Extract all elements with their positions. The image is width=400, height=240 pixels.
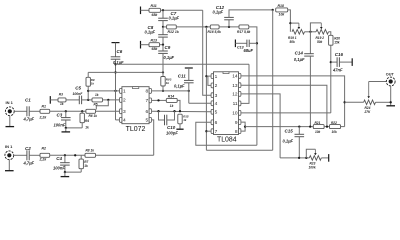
svg-text:R4: R4 bbox=[85, 119, 89, 123]
svg-text:C4: C4 bbox=[56, 156, 62, 161]
svg-text:R21: R21 bbox=[315, 121, 321, 125]
wire top rail down to TL084 pin3 bbox=[203, 10, 212, 95]
resistor R5 1k bbox=[92, 98, 103, 102]
terminal left of R13 bbox=[140, 41, 142, 49]
wiper of R24 up to OUT bbox=[368, 82, 370, 98]
potentiometer R19 2 50k bbox=[316, 30, 329, 35]
potentiometer R19 1 50k bbox=[292, 30, 305, 35]
TL072 pin 3 bbox=[120, 109, 122, 114]
svg-text:TL084: TL084 bbox=[217, 137, 237, 144]
TL084 pin 9 bbox=[239, 120, 241, 125]
wire R9 top to negative run bbox=[87, 72, 89, 77]
wire C9 down the bus to R13b bbox=[162, 53, 164, 76]
svg-text:3: 3 bbox=[123, 109, 126, 115]
ground under IN 2 jack bbox=[8, 160, 10, 171]
wire C6 down to TL072 pin4 bbox=[115, 59, 117, 120]
node R7 junction bbox=[74, 154, 76, 156]
svg-text:C1: C1 bbox=[25, 97, 31, 102]
svg-text:R3: R3 bbox=[59, 92, 63, 96]
wire R20 down to C16 node and pin10 bbox=[330, 45, 332, 113]
TL084 pin 1 bbox=[211, 74, 213, 79]
svg-text:R17 5,6k: R17 5,6k bbox=[237, 30, 251, 34]
svg-text:15k: 15k bbox=[334, 41, 340, 45]
svg-text:10k: 10k bbox=[332, 130, 338, 134]
svg-text:50k: 50k bbox=[290, 40, 296, 44]
svg-text:C3: C3 bbox=[57, 113, 63, 118]
wire terminal to R13 bbox=[141, 44, 150, 46]
wire OUT jack to wiper riser bbox=[369, 81, 387, 83]
svg-text:IN 1: IN 1 bbox=[5, 144, 13, 149]
terminal above C11 bbox=[185, 67, 193, 69]
wire R24 right to ground bbox=[376, 101, 391, 103]
svg-text:11: 11 bbox=[233, 101, 238, 107]
wire TL084 pin7 to V2 bbox=[206, 130, 211, 132]
svg-text:R18: R18 bbox=[278, 4, 284, 8]
svg-text:1k: 1k bbox=[183, 118, 187, 122]
capacitor C12 0,1uF bbox=[228, 20, 230, 27]
node V2 top junction bbox=[205, 26, 207, 28]
resistor R12 1k bbox=[167, 25, 177, 29]
wire R22 to R24 riser bbox=[341, 126, 345, 128]
wire R3 to C5 bbox=[66, 99, 79, 101]
svg-text:R11: R11 bbox=[151, 4, 157, 8]
wire TL084 pin12 down to R23 line bbox=[241, 94, 280, 158]
wire R1 to R6 (ch1 input line) bbox=[50, 110, 86, 112]
node R9 bottom junction bbox=[87, 99, 89, 101]
connector OUT (RCA jack) bbox=[386, 77, 395, 86]
resistor R4 1k to ground bbox=[81, 111, 83, 113]
potentiometer R24 27K bbox=[345, 101, 364, 103]
wire C12 top to R18 bbox=[229, 10, 273, 18]
svg-text:2: 2 bbox=[123, 98, 126, 104]
wire R8 to TL072 pin5 riser bbox=[96, 154, 154, 156]
TL084 pin 12 bbox=[239, 92, 241, 97]
TL084 pin 13 bbox=[239, 83, 241, 88]
TL084 pin 6 bbox=[211, 120, 213, 125]
capacitor C11 0,1uF bbox=[184, 79, 194, 81]
svg-text:100nF: 100nF bbox=[54, 122, 66, 127]
svg-text:2,2k: 2,2k bbox=[39, 158, 48, 162]
svg-text:5: 5 bbox=[215, 110, 218, 116]
capacitor C1 4,7uF bbox=[26, 106, 28, 116]
svg-text:C14: C14 bbox=[295, 50, 304, 55]
wire R16 to R17 bbox=[219, 26, 239, 28]
TL084 pin 8 bbox=[239, 129, 241, 134]
op-amp U2 TL084 body bbox=[214, 72, 239, 135]
node C3 junction bbox=[65, 110, 67, 112]
potentiometer R23 100k bbox=[309, 156, 321, 161]
svg-text:0,1µF: 0,1µF bbox=[174, 84, 185, 89]
resistor RV3 1k (vertical on bus) bbox=[161, 77, 165, 87]
resistor R16 5,6k bbox=[210, 25, 219, 29]
wire R17 right down (to C13/loop) bbox=[249, 27, 257, 145]
svg-text:12: 12 bbox=[232, 92, 238, 98]
svg-text:0,1µF: 0,1µF bbox=[145, 30, 156, 35]
svg-text:4: 4 bbox=[215, 101, 218, 107]
svg-text:100nF: 100nF bbox=[53, 166, 65, 171]
wire R21 to R22 bbox=[324, 126, 329, 128]
ground ch2 filter bbox=[64, 172, 66, 176]
svg-text:C9: C9 bbox=[165, 45, 171, 50]
terminal right of R23 bbox=[328, 154, 330, 162]
svg-text:C5: C5 bbox=[75, 85, 81, 90]
svg-text:14: 14 bbox=[232, 74, 238, 80]
wire IN2 to C2 bbox=[14, 154, 27, 156]
wire C1 to R1 bbox=[29, 110, 40, 112]
svg-text:TL072: TL072 bbox=[126, 126, 146, 133]
wire R2 to R8 (ch2 input line) bbox=[50, 154, 85, 156]
wire R6 to TL072 pin3 bbox=[96, 110, 120, 112]
wire R9/R13 negative run bbox=[88, 71, 163, 73]
svg-text:1k: 1k bbox=[85, 126, 89, 130]
wire R23 to terminal bbox=[321, 157, 328, 159]
svg-text:10k: 10k bbox=[315, 130, 321, 134]
resistor R11 68k bbox=[149, 8, 161, 12]
wire terminal to C6 bbox=[115, 43, 117, 57]
node pin2 branch bbox=[107, 99, 109, 101]
capacitor C15 0,1uF bbox=[298, 127, 300, 135]
TL072 pin 4 bbox=[120, 118, 122, 123]
wire down to TL084 pin10 bbox=[241, 112, 331, 114]
wire TL072 pin7 to R14 bbox=[152, 99, 167, 101]
svg-text:5: 5 bbox=[146, 118, 149, 124]
wire riser up to TL072 pin5 bbox=[152, 120, 154, 155]
svg-text:68uF: 68uF bbox=[244, 48, 254, 53]
wire TL084 pin13 down to R21/R22 node bbox=[241, 85, 327, 126]
resistor R1 2,2k bbox=[40, 109, 50, 113]
TL072 pin 1 bbox=[120, 89, 122, 94]
wire R18 down to loop-b and pots bbox=[272, 10, 274, 150]
wire R4/C3 to ground bbox=[81, 123, 83, 128]
wire OUT jack down to ground bbox=[390, 86, 392, 106]
svg-text:27K: 27K bbox=[364, 110, 372, 114]
TL084 pin 11 bbox=[239, 101, 241, 106]
node C4 junction bbox=[64, 154, 66, 156]
TL072 pin 5 bbox=[149, 118, 151, 123]
capacitor C13 68uF bbox=[235, 42, 247, 44]
wire TL084 pin9-pin8 bracket bbox=[241, 122, 245, 131]
TL072 pin 2 bbox=[120, 98, 122, 103]
terminal above C6 bbox=[112, 42, 120, 44]
ground at OUT bbox=[386, 105, 395, 107]
resistor R21 10k bbox=[313, 125, 324, 129]
capacitor C9 0,1uF bbox=[162, 45, 164, 51]
svg-text:1k: 1k bbox=[91, 81, 95, 85]
wire R7/C4 to ground bbox=[80, 169, 82, 172]
wire TL072 pin8 to C11 riser bbox=[152, 90, 189, 92]
svg-text:0,1µF: 0,1µF bbox=[169, 16, 180, 21]
capacitor C3 100nF to ground bbox=[65, 111, 67, 117]
wire terminal to C11 bbox=[188, 68, 190, 80]
svg-text:1: 1 bbox=[123, 89, 126, 95]
svg-text:1k: 1k bbox=[84, 164, 88, 168]
capacitor C8 0,1uF bbox=[162, 27, 164, 35]
svg-text:0,1µF: 0,1µF bbox=[283, 139, 294, 144]
resistor R15 1k to ground bbox=[178, 114, 182, 124]
resistor R17 5,6k bbox=[239, 25, 249, 29]
wire TL084 pin2 hook up to pin1 line bbox=[208, 76, 211, 85]
wire R19.1 to R19.2 bbox=[305, 31, 317, 33]
TL084 pin 14 bbox=[239, 74, 241, 79]
resistor R7 1k to ground bbox=[80, 155, 82, 159]
svg-text:9: 9 bbox=[235, 120, 238, 126]
capacitor C2 4,7uF bbox=[26, 150, 28, 160]
svg-text:1k: 1k bbox=[170, 104, 174, 108]
capacitor C14 0,1uF on pot tap bbox=[309, 32, 311, 54]
capacitor C5 100nF bbox=[78, 96, 80, 105]
svg-text:C6: C6 bbox=[117, 49, 123, 54]
capacitor C16 47nF bbox=[331, 61, 337, 63]
TL084 pin 7 bbox=[211, 129, 213, 134]
svg-text:6: 6 bbox=[215, 120, 218, 126]
wire IN1 to C1 bbox=[14, 110, 27, 112]
terminal left of R3 bbox=[49, 96, 51, 104]
ground under IN 1 jack bbox=[9, 116, 11, 127]
svg-text:C10: C10 bbox=[167, 125, 176, 130]
svg-text:100pF: 100pF bbox=[166, 130, 178, 135]
svg-text:0,1µF: 0,1µF bbox=[164, 55, 175, 60]
svg-text:4,7µF: 4,7µF bbox=[23, 116, 35, 121]
wire loop-b V2 to R18 drop bbox=[206, 149, 272, 151]
TL084 pin 5 bbox=[211, 109, 213, 114]
svg-text:4: 4 bbox=[123, 118, 126, 124]
resistor R9 1k feedback bbox=[86, 77, 90, 86]
svg-text:1: 1 bbox=[215, 74, 218, 80]
capacitor C6 0,1uF bbox=[111, 56, 121, 58]
wire rail down to TL084 pin11 bbox=[241, 64, 249, 103]
svg-text:8: 8 bbox=[235, 129, 238, 135]
wire V2 to TL084 pin1 bbox=[206, 75, 211, 77]
svg-text:47nF: 47nF bbox=[332, 68, 343, 73]
svg-text:7: 7 bbox=[215, 129, 218, 135]
wire R12 to R16 bbox=[176, 26, 210, 28]
svg-text:6: 6 bbox=[146, 109, 149, 115]
resistor R22 10k bbox=[330, 125, 341, 129]
capacitor C4 100nF to ground bbox=[64, 155, 66, 162]
terminal left of R11 bbox=[140, 7, 142, 15]
svg-text:OUT: OUT bbox=[386, 72, 395, 76]
svg-text:R6 1k: R6 1k bbox=[89, 114, 98, 118]
wire R19.2 to R20 bbox=[329, 32, 331, 36]
resistor R13 68k bbox=[149, 43, 160, 47]
svg-text:IN 1: IN 1 bbox=[6, 100, 14, 105]
ground ch1 filter bbox=[65, 128, 67, 132]
wire R5 to TL072 pin2 bbox=[103, 99, 120, 101]
resistor R2 2,2k bbox=[40, 153, 50, 157]
wire R9 bottom to pin1 node bbox=[87, 86, 89, 100]
svg-text:1k: 1k bbox=[60, 102, 64, 106]
svg-text:C16: C16 bbox=[335, 52, 344, 57]
svg-text:R13: R13 bbox=[151, 39, 157, 43]
wire R23 line from pin12 drop bbox=[280, 157, 309, 159]
capacitor C7 0,1uF bbox=[162, 10, 164, 18]
wire R11 to V1 corner (top rail) bbox=[161, 9, 203, 11]
wire TL084 pin14 to R24 riser bbox=[241, 76, 345, 127]
svg-text:1k: 1k bbox=[95, 93, 99, 97]
wire C5 to R5 bbox=[82, 99, 92, 101]
capacitor C10 100pF feedback bbox=[159, 111, 165, 120]
TL072 pin 6 bbox=[149, 109, 151, 114]
svg-text:0,1µF: 0,1µF bbox=[213, 9, 224, 14]
svg-text:7: 7 bbox=[146, 98, 149, 104]
TL072 pin 7 bbox=[149, 98, 151, 103]
wire C11 to pin8 line and TL084 pin4 bbox=[188, 83, 190, 104]
wire R14 right down to pin6 line bbox=[177, 100, 180, 111]
resistor R8 1k in series to pin5 bbox=[85, 153, 96, 157]
wire C2 to R2 bbox=[29, 154, 40, 156]
wire TL084 pin6 loop down-left bbox=[196, 122, 257, 145]
resistor R20 15k bbox=[329, 35, 333, 45]
wire C8 to R13 node bbox=[162, 37, 164, 45]
svg-text:3: 3 bbox=[215, 93, 218, 99]
svg-text:100k: 100k bbox=[309, 165, 316, 169]
connector IN 1 (top RCA jack) bbox=[5, 107, 14, 116]
svg-text:C11: C11 bbox=[178, 74, 186, 79]
wire terminal to R3 bbox=[50, 99, 58, 101]
wire bus to TL072 pin8 line bbox=[162, 86, 164, 91]
svg-text:4,7µF: 4,7µF bbox=[23, 160, 35, 165]
svg-text:2: 2 bbox=[215, 83, 218, 89]
resistor R3 1k bbox=[58, 98, 66, 102]
svg-text:100nF: 100nF bbox=[73, 92, 84, 96]
svg-text:10: 10 bbox=[232, 111, 238, 117]
wire TL072 pin6 to TL084 pin5 bbox=[152, 110, 212, 113]
svg-text:R12 1k: R12 1k bbox=[168, 30, 180, 34]
svg-text:1k: 1k bbox=[166, 81, 170, 85]
connector IN 2 (bottom RCA jack) bbox=[5, 151, 14, 160]
svg-text:2,2k: 2,2k bbox=[39, 116, 48, 120]
svg-text:C2: C2 bbox=[25, 146, 31, 151]
svg-text:R16 5,6k: R16 5,6k bbox=[208, 30, 222, 34]
svg-text:R2: R2 bbox=[42, 147, 47, 151]
TL072 pin 8 bbox=[149, 89, 151, 94]
wire terminal to R11 bbox=[141, 9, 150, 11]
terminal left of C13 bbox=[234, 40, 236, 48]
svg-text:R8 1k: R8 1k bbox=[86, 149, 95, 153]
resistor R6 1k in series to pin3 bbox=[86, 109, 96, 113]
ground under R15 bbox=[179, 124, 181, 129]
wire V2 down left side of TL084 bbox=[205, 27, 207, 150]
TL084 pin 4 bbox=[211, 101, 213, 106]
wire pin2 branch down to R6 right bbox=[96, 100, 108, 110]
resistor R14 1k bbox=[166, 98, 177, 102]
svg-text:C15: C15 bbox=[285, 129, 294, 134]
TL084 pin 10 bbox=[239, 111, 241, 116]
svg-text:R22: R22 bbox=[331, 121, 337, 125]
TL084 pin 3 bbox=[211, 93, 213, 98]
supply rail bbox=[116, 63, 250, 65]
TL084 pin 2 bbox=[211, 83, 213, 88]
resistor R18 10k bbox=[276, 8, 288, 12]
svg-text:50k: 50k bbox=[317, 40, 323, 44]
svg-text:13: 13 bbox=[232, 83, 238, 89]
wire pin9/8 node to R21 bbox=[245, 126, 313, 128]
terminal right of C16 bbox=[351, 58, 353, 66]
svg-text:R14: R14 bbox=[168, 94, 174, 98]
svg-text:R1: R1 bbox=[42, 104, 47, 108]
svg-text:0,1µF: 0,1µF bbox=[294, 57, 305, 62]
svg-text:8: 8 bbox=[146, 89, 149, 95]
wire pin1 line from R9 to TL072 pin1 bbox=[88, 90, 119, 92]
node R4 junction bbox=[81, 110, 83, 112]
op-amp U1 TL072 body bbox=[122, 87, 149, 124]
wire R18 right to R19 pot bbox=[288, 10, 291, 32]
wire C7 to R12 node bbox=[162, 21, 164, 27]
